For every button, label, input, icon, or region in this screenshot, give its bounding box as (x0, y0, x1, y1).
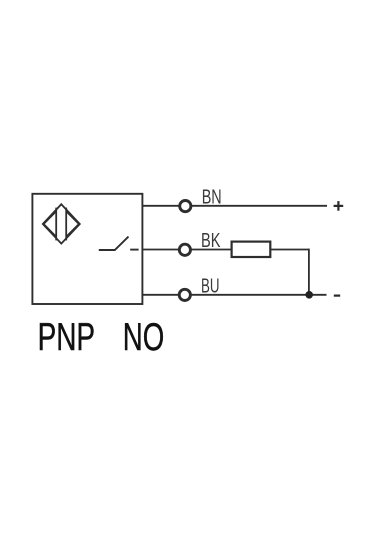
proximity sensor symbol (diamond) (43, 204, 80, 243)
sensor symbol left vertical bar (55, 208, 57, 241)
svg-text:BU: BU (201, 276, 220, 298)
sensor box U1 (32, 194, 142, 304)
wire BN (brown) (142, 205, 327, 207)
svg-text:PNP: PNP (38, 316, 96, 359)
wire from resistor to corner (270, 249, 309, 251)
terminal circle BU (179, 289, 190, 300)
minus terminal (334, 295, 340, 297)
switch S1 (normally open) (99, 237, 129, 250)
plus terminal (334, 201, 344, 211)
terminal circle BN (180, 201, 191, 212)
sensor symbol right vertical bar (65, 208, 67, 241)
switch fixed contact dash (130, 249, 138, 251)
svg-text:NO: NO (123, 316, 165, 359)
wire BU (blue) (142, 294, 326, 296)
sensor symbol left triangle (44, 211, 57, 236)
terminal circle BK (179, 244, 190, 255)
sensor symbol right triangle (66, 211, 79, 236)
svg-text:BK: BK (201, 230, 221, 252)
wire BK (black) to resistor (142, 249, 231, 251)
junction node dot (305, 291, 313, 299)
wire corner down to BU line (308, 249, 310, 295)
svg-text:BN: BN (202, 186, 222, 208)
resistor R1 (232, 242, 271, 257)
